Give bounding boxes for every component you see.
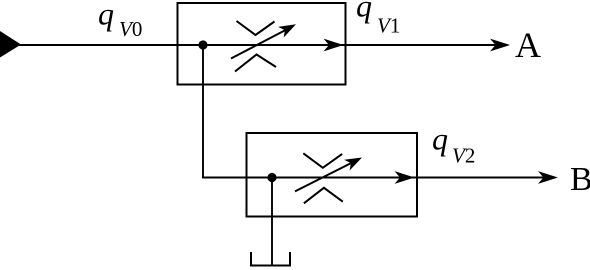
flow control valve 1: lower restriction chevron xyxy=(235,55,276,72)
tank (reservoir) symbol xyxy=(251,252,290,266)
flow control valve 2: lower restriction chevron xyxy=(304,188,343,204)
source arrow (supply) xyxy=(0,31,21,58)
svg-text:q: q xyxy=(356,0,372,24)
flow control valve 1: upper restriction chevron xyxy=(237,21,275,35)
svg-text:V1: V1 xyxy=(377,14,400,38)
flow control valve 1: enclosure box xyxy=(178,3,346,85)
label A (outlet A) xyxy=(515,25,541,65)
svg-text:q: q xyxy=(98,0,114,32)
svg-text:q: q xyxy=(432,121,448,157)
label q_V2 xyxy=(432,121,475,168)
svg-text:B: B xyxy=(570,161,590,198)
node 2 (junction dot) xyxy=(267,173,276,182)
wire: supply line to A xyxy=(14,44,507,46)
svg-text:A: A xyxy=(515,25,541,65)
svg-text:V0: V0 xyxy=(119,17,142,41)
arrowhead before B xyxy=(538,171,558,184)
label q_V1 xyxy=(356,0,400,38)
flow control valve 1: adjustment arrow xyxy=(231,24,296,58)
wire: branch line to B xyxy=(202,177,555,179)
node 1 (junction dot) xyxy=(198,40,207,49)
flow control valve 2: adjustment arrow xyxy=(295,158,362,192)
label q_V0 xyxy=(98,0,142,41)
flow control valve 2: upper restriction chevron xyxy=(303,153,342,168)
arrowhead before A xyxy=(490,39,510,52)
arrowhead on line inside valve 1 xyxy=(324,39,344,52)
svg-text:V2: V2 xyxy=(452,144,475,168)
wire: node1 down to branch line xyxy=(202,45,204,179)
wire: node2 down to tank xyxy=(271,178,273,266)
label B (outlet B) xyxy=(570,161,590,198)
flow control valve 2: enclosure box xyxy=(247,133,418,217)
arrowhead on line inside valve 2 xyxy=(395,171,415,184)
